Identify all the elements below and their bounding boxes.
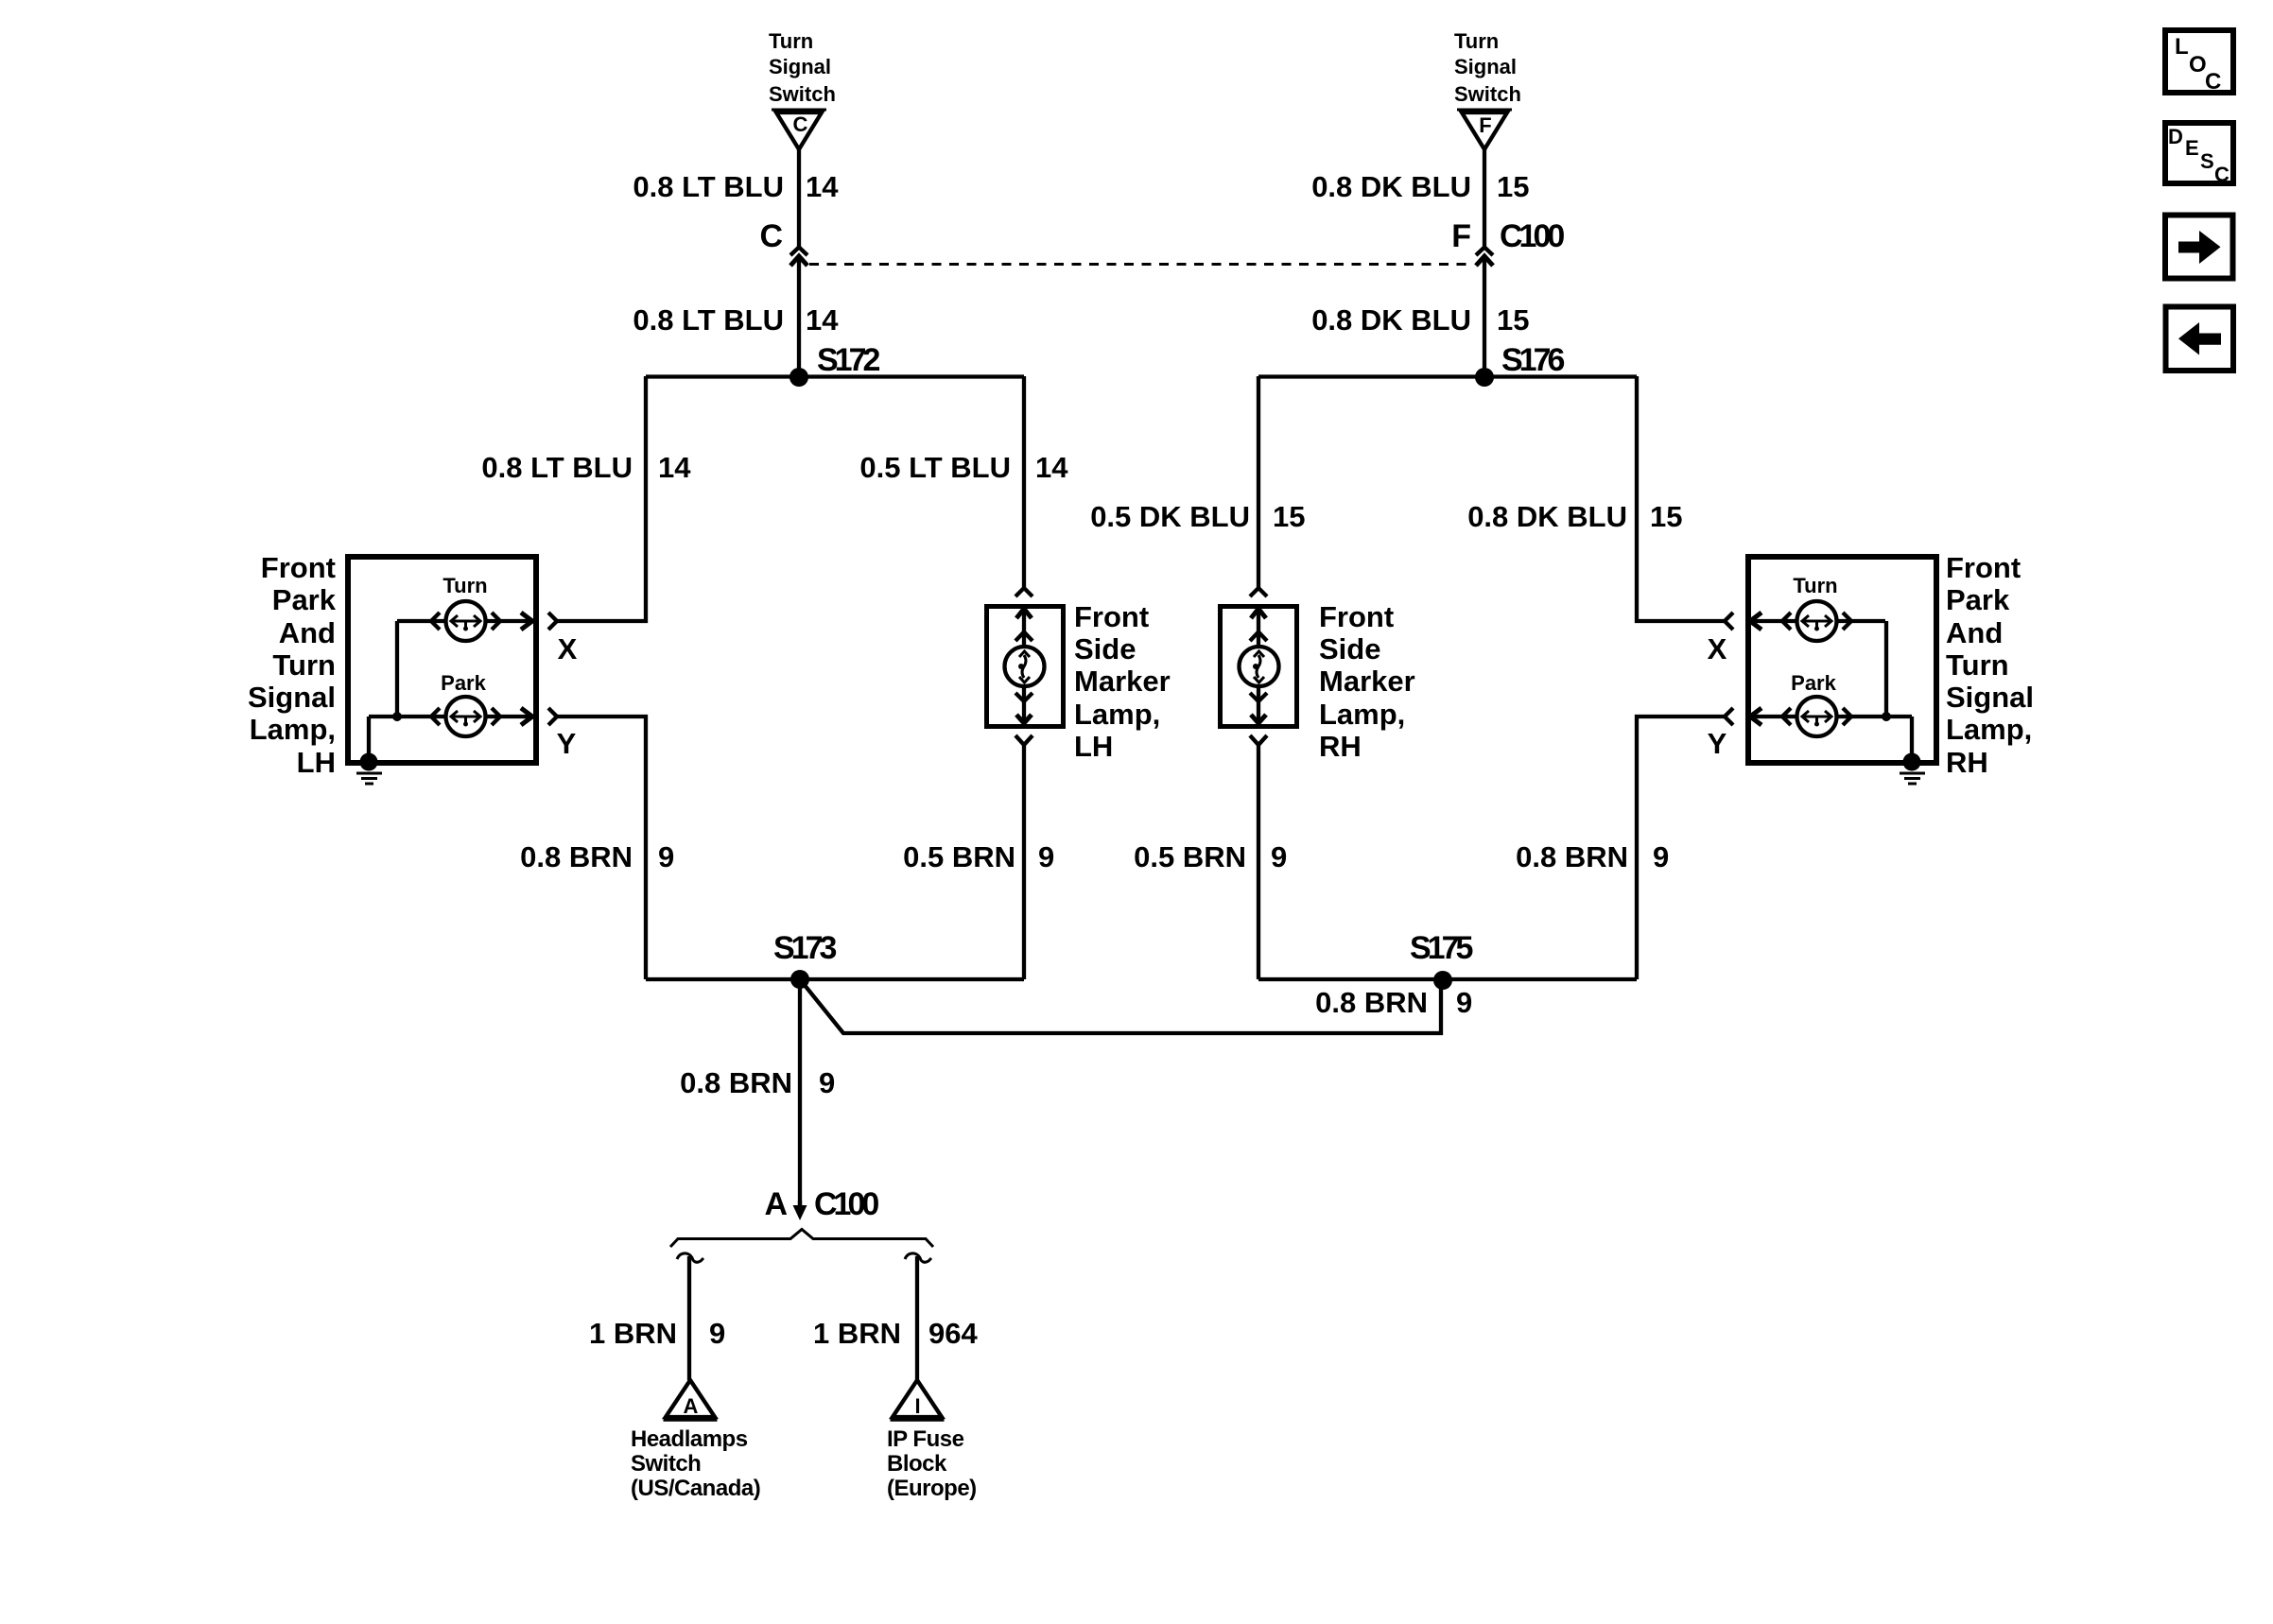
wire label 0.5 BRN 9 (RH marker ground feed) [1134,840,1287,873]
ground (RH lamp) [1900,753,1925,785]
connector C at C100 (in-line connector halves) [759,218,807,266]
lamp Turn (RH) [1793,574,1837,641]
svg-text:Signal: Signal [1454,55,1517,78]
connector marks Park row (LH) [369,708,557,725]
svg-text:0.5 DK BLU: 0.5 DK BLU [1090,500,1250,533]
svg-text:Front: Front [261,551,336,584]
svg-text:0.8 BRN: 0.8 BRN [520,840,633,873]
svg-text:Signal: Signal [769,55,831,78]
wire: S176 right drop to RH lamp X [1637,376,1725,621]
nav icon DESC [2165,123,2233,186]
splice S173 [646,930,1024,989]
wire: RH lamp Y to S175 [1637,717,1725,979]
svg-text:Y: Y [1708,727,1727,760]
svg-text:Front: Front [1319,600,1394,633]
connector marks bottom (RH marker) [1250,686,1267,745]
svg-text:D: D [2168,125,2183,148]
svg-text:0.8 DK BLU: 0.8 DK BLU [1311,170,1471,203]
brace splitting C100 A into two circuits [670,1230,933,1248]
svg-text:0.8 BRN: 0.8 BRN [680,1066,792,1099]
branch hook left [677,1253,703,1262]
wire label 0.5 DK BLU 15 (marker drop) [1090,500,1305,533]
svg-text:LH: LH [1074,730,1113,763]
wire: S172 right drop to LH side marker [1022,376,1026,588]
svg-text:1 BRN: 1 BRN [813,1317,901,1350]
svg-text:964: 964 [928,1317,978,1350]
svg-text:0.8 LT BLU: 0.8 LT BLU [633,303,784,337]
svg-text:9: 9 [1271,840,1287,873]
wire: connector F to S176 [1483,257,1486,378]
internal wire Turn-to-Park junction (RH) [1884,621,1888,717]
lamp bulb (LH marker) [1005,647,1045,686]
wire label 0.8 BRN 9 (S173-S175 link) [1315,986,1472,1019]
svg-text:15: 15 [1497,303,1529,337]
svg-text:X: X [1708,632,1727,665]
wire: S173 down to connector A C100 [798,979,802,1206]
svg-text:Turn: Turn [1946,648,2009,682]
ground (LH lamp) [356,753,382,785]
svg-text:A: A [684,1394,699,1418]
svg-text:S172: S172 [817,342,879,378]
svg-text:0.8 BRN: 0.8 BRN [1315,986,1428,1019]
svg-text:1 BRN: 1 BRN [589,1317,677,1350]
svg-text:Lamp,: Lamp, [1946,713,2032,746]
svg-text:0.8 BRN: 0.8 BRN [1516,840,1628,873]
svg-text:And: And [279,616,336,649]
svg-text:Block: Block [887,1451,947,1477]
svg-text:Park: Park [1791,671,1836,695]
internal wire Turn-to-Park junction (LH) [395,621,399,717]
wire label 0.8 BRN 9 (RH lamp ground feed) [1516,840,1669,873]
svg-text:9: 9 [709,1317,725,1350]
svg-text:0.8 DK BLU: 0.8 DK BLU [1311,303,1471,337]
svg-text:Park: Park [1946,583,2010,616]
svg-text:14: 14 [806,303,839,337]
svg-text:Turn: Turn [442,574,487,597]
svg-text:9: 9 [1456,986,1472,1019]
wire: RH marker to S175 [1257,745,1260,979]
connector marks Turn row (RH) [1725,613,1885,630]
wire label 1 BRN 964 [813,1317,978,1350]
svg-text:C100: C100 [1500,218,1564,254]
svg-text:Headlamps: Headlamps [631,1426,748,1452]
svg-text:0.5 BRN: 0.5 BRN [903,840,1015,873]
junction node (LH) [392,712,402,721]
svg-text:Side: Side [1074,632,1136,665]
svg-text:C: C [2205,69,2221,95]
svg-text:LH: LH [297,746,336,779]
connector F at C100 [1451,218,1564,266]
svg-text:Signal: Signal [1946,681,2034,714]
splice S175 [1258,930,1637,990]
wire: right branch to IP Fuse Block [915,1256,919,1380]
svg-text:F: F [1479,113,1491,137]
svg-text:15: 15 [1497,170,1529,203]
svg-text:C: C [793,112,808,136]
wire label 0.8 LT BLU 14 (left drop) [481,451,691,484]
lamp bulb (RH marker) [1240,647,1279,686]
svg-text:0.5 LT BLU: 0.5 LT BLU [859,451,1011,484]
svg-text:Marker: Marker [1319,665,1415,698]
svg-text:A: A [764,1186,788,1222]
nav icon LOC [2165,30,2233,95]
connector marks bottom (LH marker) [1015,686,1032,745]
connector A at C100 (arrow down) [764,1186,878,1222]
svg-text:S176: S176 [1501,342,1564,378]
svg-text:IP Fuse: IP Fuse [887,1426,964,1452]
nav icon forward arrow [2165,216,2233,279]
svg-text:Turn: Turn [769,29,813,53]
wire: S172 left drop to LH lamp X [557,376,646,621]
wire: LH lamp Y to S173 [557,717,646,979]
svg-text:Side: Side [1319,632,1380,665]
svg-text:Front: Front [1946,551,2021,584]
svg-text:C: C [2214,163,2230,186]
svg-text:Y: Y [557,727,577,760]
svg-text:14: 14 [806,170,839,203]
wire label 0.5 LT BLU 14 (marker drop) [859,451,1068,484]
svg-text:15: 15 [1650,500,1682,533]
terminal: Headlamps Switch triangle A [631,1380,760,1501]
lamp Park (LH) [441,671,486,736]
svg-text:RH: RH [1946,746,1988,779]
svg-text:S175: S175 [1410,930,1472,966]
connector marks Park row (RH) [1725,708,1912,725]
svg-text:Lamp,: Lamp, [250,713,336,746]
svg-text:0.8 LT BLU: 0.8 LT BLU [481,451,633,484]
svg-text:Signal: Signal [248,681,336,714]
component: Front Park And Turn Signal Lamp LH [248,551,536,779]
splice S176 [1258,342,1637,387]
svg-text:14: 14 [658,451,691,484]
component: Front Side Marker Lamp LH [987,600,1171,763]
wire: C terminal to connector C [797,149,801,248]
terminal: Turn Signal Switch C (top left) [769,29,836,149]
svg-text:(Europe): (Europe) [887,1476,977,1501]
internal ground wire (LH) [367,717,371,762]
wire: left branch to Headlamps Switch [687,1256,691,1380]
wire label 0.8 DK BLU 15 (top right upper) [1311,170,1529,203]
svg-text:O: O [2189,52,2206,78]
svg-text:Lamp,: Lamp, [1319,698,1405,731]
wire: F terminal to connector F [1483,149,1486,248]
dashed harness separator line [809,263,1473,266]
component: Front Side Marker Lamp RH [1221,600,1415,763]
wire label 0.8 DK BLU 15 (right drop) [1467,500,1682,533]
svg-text:0.8 LT BLU: 0.8 LT BLU [633,170,784,203]
connector marks top (RH marker) [1250,588,1267,648]
junction node (RH) [1882,712,1891,721]
svg-text:X: X [558,632,578,665]
svg-text:Turn: Turn [1793,574,1837,597]
wire: connector C to S172 [797,257,801,378]
svg-text:14: 14 [1035,451,1068,484]
svg-text:9: 9 [658,840,674,873]
splice S172 [646,342,1024,387]
svg-text:Lamp,: Lamp, [1074,698,1160,731]
svg-text:9: 9 [1653,840,1669,873]
svg-text:C: C [759,218,783,254]
svg-text:0.8 DK BLU: 0.8 DK BLU [1467,500,1627,533]
nav icon back arrow [2166,307,2234,371]
terminal: IP Fuse Block triangle I [887,1380,977,1501]
lamp Park (RH) [1791,671,1836,736]
svg-text:I: I [914,1394,920,1418]
wire label 1 BRN 9 [589,1317,725,1350]
svg-text:Switch: Switch [769,82,836,106]
svg-text:Front: Front [1074,600,1149,633]
connector marks Turn row (LH) [397,613,557,630]
svg-text:15: 15 [1273,500,1305,533]
svg-text:9: 9 [819,1066,835,1099]
svg-text:C100: C100 [814,1186,878,1222]
svg-text:L: L [2175,34,2188,60]
svg-text:F: F [1451,218,1471,254]
wire label 0.8 DK BLU 15 (above S176) [1311,303,1529,337]
branch hook right [905,1253,931,1262]
terminal: Turn Signal Switch F (top right) [1454,29,1521,149]
svg-text:Park: Park [441,671,486,695]
svg-text:9: 9 [1038,840,1054,873]
svg-text:RH: RH [1319,730,1362,763]
wire label 0.5 BRN 9 (LH marker ground feed) [903,840,1054,873]
svg-text:(US/Canada): (US/Canada) [631,1476,760,1501]
wire label 0.8 BRN 9 (S173 to C100) [680,1066,835,1099]
svg-text:Marker: Marker [1074,665,1171,698]
svg-text:Switch: Switch [631,1451,701,1477]
svg-text:Park: Park [272,583,337,616]
connector marks top (LH marker) [1015,588,1032,648]
wire label 0.8 BRN 9 (LH lamp ground feed) [520,840,674,873]
lamp Turn (LH) [442,574,487,641]
wire: S176 left drop to RH side marker [1257,376,1260,588]
svg-text:S173: S173 [773,930,836,966]
svg-text:And: And [1946,616,2003,649]
wire: LH marker to S173 [1022,745,1026,979]
internal ground wire (RH) [1910,717,1914,762]
svg-text:0.5 BRN: 0.5 BRN [1134,840,1246,873]
wire label 0.8 LT BLU 14 (above S172) [633,303,839,337]
svg-text:Turn: Turn [272,648,336,682]
component: Front Park And Turn Signal Lamp RH [1748,551,2034,779]
wire label 0.8 LT BLU 14 (top left upper) [633,170,839,203]
svg-text:E: E [2185,136,2199,160]
wire: S173 to S175 link [800,979,1441,1033]
svg-text:S: S [2200,149,2214,173]
svg-text:Switch: Switch [1454,82,1521,106]
svg-text:Turn: Turn [1454,29,1499,53]
